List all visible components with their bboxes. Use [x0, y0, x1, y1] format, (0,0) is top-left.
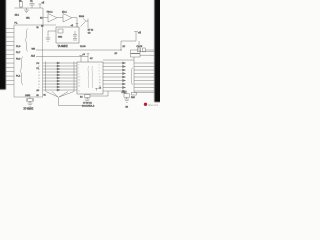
connector J1 pin 6	[6, 49, 15, 51]
bus2 wire 7	[103, 83, 126, 85]
bus2 wire 1	[103, 62, 126, 64]
svg-text:OSC: OSC	[58, 36, 63, 38]
bus1 wire 6	[43, 77, 78, 79]
svg-text:4: 4	[78, 67, 79, 69]
wire ground to module	[48, 30, 56, 32]
bus2 wire 6	[103, 79, 126, 81]
connector J1 pin 2	[6, 32, 15, 34]
bus2 wire 4	[103, 72, 126, 74]
svg-text:31: 31	[37, 27, 39, 29]
connector J2 row 3	[134, 69, 155, 71]
svg-text:13: 13	[78, 76, 80, 78]
power +5V arrow A1	[39, 4, 42, 8]
svg-text:35: 35	[38, 72, 40, 74]
connector J2 row 5	[134, 76, 155, 78]
capacitor C4	[138, 48, 141, 52]
svg-text:30: 30	[37, 95, 39, 97]
capacitor C2 in module	[73, 35, 77, 37]
left scan-edge black bar	[0, 0, 6, 90]
wire inverter output to oscillator box	[72, 18, 77, 27]
svg-text:4B.1: 4B.1	[15, 15, 20, 17]
svg-text:1C-8C55A-2: 1C-8C55A-2	[82, 105, 95, 108]
svg-text:R7 1k: R7 1k	[88, 30, 93, 32]
funnel diagonal left inner	[52, 92, 58, 98]
latch U2 box	[77, 62, 103, 94]
connector J1 pin 1	[6, 27, 15, 29]
wire ALE control line	[36, 56, 88, 58]
connector J1 pin 8	[6, 58, 15, 60]
svg-text:2: 2	[99, 64, 100, 66]
svg-text:14: 14	[78, 79, 80, 81]
resistor R1	[20, 2, 23, 9]
svg-text:LAN2: LAN2	[25, 94, 31, 97]
svg-text:TA-6MHZ: TA-6MHZ	[58, 45, 69, 48]
svg-text:18: 18	[78, 85, 80, 87]
svg-text:22: 22	[38, 90, 40, 92]
svg-text:C1M: C1M	[122, 92, 127, 94]
wire caps to bar	[146, 49, 155, 51]
svg-text:12: 12	[99, 76, 101, 78]
wire top rail	[15, 7, 44, 9]
connector J2 bottom	[134, 92, 155, 94]
ground G1	[24, 8, 29, 13]
bus1 left rail	[45, 62, 47, 92]
connector J2 row 7	[134, 83, 155, 85]
wire C6 link	[90, 91, 108, 96]
svg-text:21: 21	[38, 87, 40, 89]
brace connector group	[131, 68, 133, 86]
wire riser at x121	[120, 41, 122, 50]
svg-text:11: 11	[78, 90, 80, 92]
connector J1 pin 7	[6, 53, 15, 55]
wire WR control line	[36, 49, 121, 51]
svg-text:17: 17	[78, 82, 80, 84]
svg-text:C7 C9 1C: C7 C9 1C	[83, 103, 92, 105]
bus1 wire 3	[43, 68, 78, 70]
crystal Y1	[26, 98, 33, 101]
funnel diagonal left outer	[46, 92, 58, 98]
capacitor C1	[30, 2, 35, 8]
oscillator internal element	[58, 29, 63, 33]
bus2 wire 5	[103, 76, 126, 78]
svg-text:38: 38	[38, 81, 40, 83]
U2 right pin labels	[99, 64, 101, 87]
svg-text:3: 3	[78, 64, 79, 66]
power +5V arrow on module	[76, 24, 79, 28]
connector J1 pin 12	[6, 75, 15, 77]
U2 center brace left	[87, 66, 90, 88]
transistor Q1 cluster	[81, 19, 89, 29]
power +5V arrow on U2	[79, 56, 82, 63]
ground G5	[28, 101, 33, 106]
wire funnel vertical	[58, 97, 60, 106]
svg-text:33: 33	[38, 66, 40, 68]
bus1 wire 1	[43, 62, 78, 64]
inverter U3A	[48, 14, 57, 23]
ground G3	[85, 99, 90, 102]
bus2 wire 3	[103, 69, 126, 71]
wire to +5 arrow	[121, 40, 136, 42]
connector J2 row 6	[134, 80, 155, 82]
funnel diagonal right inner	[59, 92, 68, 98]
svg-text:dzsc.com: dzsc.com	[148, 104, 158, 107]
svg-text:C4 C5: C4 C5	[137, 46, 144, 48]
bus2 wire 9	[103, 90, 127, 92]
wire XTAL stub	[29, 97, 31, 99]
inverter U3B	[63, 14, 72, 23]
bus2 wire 8	[103, 86, 126, 88]
svg-text:C2 30: C2 30	[80, 46, 86, 48]
capacitor C6	[85, 95, 91, 100]
bus1 wire 2	[43, 65, 78, 67]
capacitor C7	[124, 91, 130, 99]
U2 center brace right	[91, 66, 94, 88]
node dot junction WR riser	[120, 49, 121, 50]
wire cell B to bar	[140, 54, 155, 56]
bus1 wire 7	[43, 80, 78, 82]
wire C4 top stub	[138, 41, 140, 48]
right scan-edge black bar	[154, 0, 161, 102]
svg-text:7G4-1: 7G4-1	[47, 12, 54, 14]
ground G4	[124, 99, 129, 102]
MCU U1 box	[14, 25, 43, 97]
svg-text:5: 5	[99, 67, 100, 69]
svg-text:8: 8	[78, 73, 79, 75]
svg-text:37: 37	[38, 78, 40, 80]
label MCU bus pin numbers	[38, 63, 40, 92]
svg-text:9: 9	[99, 73, 100, 75]
connector J1 pin 11	[6, 71, 15, 73]
wire MCU top stub	[43, 24, 56, 26]
connector J2 row 2	[134, 66, 155, 68]
wire ALE drop to U2	[87, 57, 89, 63]
bus1 right rail	[73, 62, 75, 92]
wire cell A to bar	[140, 51, 155, 53]
svg-text:36: 36	[38, 75, 40, 77]
wire to inverter input	[43, 8, 48, 25]
wire between inverters	[57, 17, 63, 19]
bus1 wire 5	[43, 74, 78, 76]
capacitor C5	[143, 48, 146, 52]
power tick on ALE drop	[87, 54, 90, 57]
bus1 wire 9	[43, 86, 78, 88]
svg-text:WR: WR	[32, 49, 36, 51]
funnel diagonal right outer	[59, 92, 74, 98]
connector J1 pin 9	[6, 62, 15, 64]
connector J1 pin 3	[6, 36, 15, 38]
connector J2 cell B	[131, 54, 141, 57]
svg-text:R1C: R1C	[131, 97, 136, 99]
oscillator module box X1	[56, 27, 79, 43]
connector J1 pin 4	[6, 40, 15, 42]
svg-text:32: 32	[38, 63, 40, 65]
svg-text:34: 34	[38, 69, 40, 71]
svg-text:16: 16	[99, 82, 101, 84]
connector J2 left edge	[133, 57, 135, 93]
watermark red dot	[144, 103, 147, 106]
svg-text:2D-1: 2D-1	[62, 12, 68, 14]
resistor R10 box	[132, 92, 137, 95]
connector J2 row 1	[134, 62, 155, 64]
power +5V arrow bottom	[95, 88, 98, 90]
connector J2 cell A	[131, 50, 141, 53]
wire funnel horizontal	[59, 105, 87, 107]
connector J1 pin 13	[6, 79, 15, 81]
svg-text:7: 7	[78, 70, 79, 72]
capacitor C3 in module	[73, 31, 77, 40]
bus1 wire 4	[43, 71, 78, 73]
connector J2 row 9	[134, 90, 155, 92]
connector J1 pin 10	[6, 66, 15, 68]
svg-text:15: 15	[99, 79, 101, 81]
connector J1 pin 5	[6, 45, 15, 47]
wire U2 top to connector	[103, 59, 134, 61]
svg-text:ALE: ALE	[31, 54, 36, 57]
connector J2 row 8	[134, 87, 155, 89]
svg-text:6: 6	[99, 70, 100, 72]
power +5V arrow A3	[134, 32, 138, 42]
connector J1 pin 14	[6, 84, 15, 86]
bus1 wire 10	[43, 89, 78, 91]
svg-text:39: 39	[38, 84, 40, 86]
svg-text:5G14: 5G14	[79, 16, 85, 18]
brace port group 2	[20, 57, 23, 86]
connector J2 row 4	[134, 73, 155, 75]
bus1 wire 8	[43, 83, 78, 85]
brace port group 1	[25, 29, 28, 52]
ground G2	[46, 31, 51, 41]
bus2 wire 2	[103, 65, 126, 67]
U2 left pin labels	[78, 64, 80, 92]
svg-text:P1.: P1.	[15, 22, 18, 24]
svg-text:XT-6MHZ: XT-6MHZ	[24, 109, 34, 110]
